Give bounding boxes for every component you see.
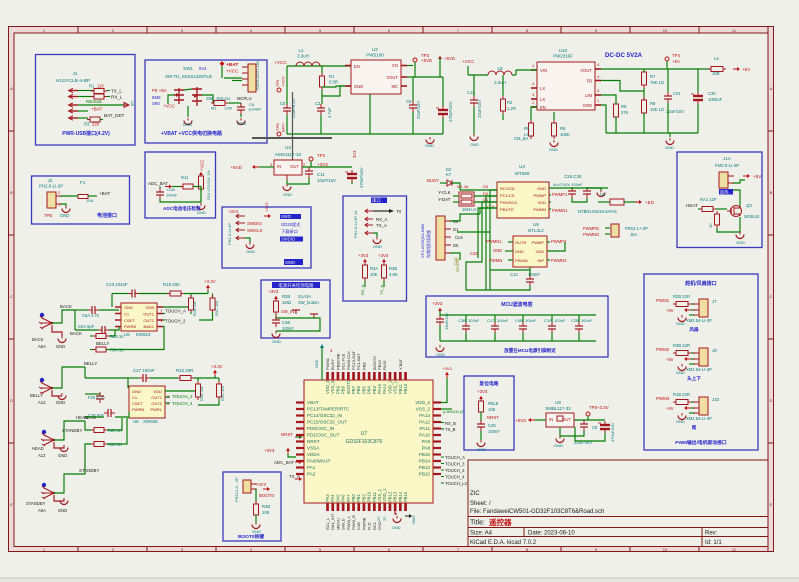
svg-text:GND: GND (537, 186, 546, 191)
wire (287, 65, 351, 67)
svg-text:PH2.0-LI-2P: PH2.0-LI-2P (39, 184, 63, 189)
connector header SW (248, 64, 256, 92)
svg-text:TP9: TP9 (275, 79, 280, 87)
capacitor C6 22uF (283, 104, 291, 115)
svg-text:C3: C3 (315, 101, 321, 106)
svg-text:Y-BAT: Y-BAT (398, 358, 403, 370)
svg-text:B: B (10, 190, 13, 195)
svg-text:存储花形烧录座: 存储花形烧录座 (425, 230, 431, 258)
net label TOUCH_3 (441, 463, 444, 465)
svg-text:VDD_2: VDD_2 (415, 400, 430, 405)
svg-text:XM2.54-LI-3P: XM2.54-LI-3P (686, 367, 712, 372)
svg-text:BAT+: BAT+ (281, 122, 286, 132)
svg-text:GND: GND (436, 352, 445, 357)
wire (172, 186, 182, 188)
svg-text:D5: D5 (483, 184, 489, 189)
touch pad HEAD (42, 430, 46, 434)
svg-text:SWCLK: SWCLK (247, 228, 263, 233)
svg-text:TOUCH_A: TOUCH_A (445, 455, 465, 460)
pin stub (383, 372, 386, 380)
svg-text:4.8K: 4.8K (389, 272, 398, 277)
resistor R2 (501, 96, 506, 114)
svg-text:PWR-USB接口(4.2V): PWR-USB接口(4.2V) (62, 130, 110, 137)
net marker (320, 344, 324, 348)
polarized cap 470uF (598, 421, 610, 433)
pin stub (399, 372, 402, 380)
svg-text:5M8: 5M8 (152, 95, 161, 100)
svg-text:PB10: PB10 (403, 383, 408, 394)
wire (85, 393, 100, 395)
svg-text:PWRB: PWRB (132, 407, 144, 412)
svg-text:Size: A4: Size: A4 (470, 531, 493, 537)
svg-text:File: FandaweiCW501-GD32F103C8: File: FandaweiCW501-GD32F103C8T6&Road.sc… (470, 509, 604, 515)
svg-text:F25 4.7n: F25 4.7n (88, 395, 105, 400)
svg-text:TPB: TPB (275, 123, 280, 131)
resistor R26 1K (91, 442, 107, 447)
svg-text:C26 C29: C26 C29 (564, 174, 582, 179)
svg-text:R2B: R2B (282, 294, 290, 299)
svg-text:4u47/10V 100nF: 4u47/10V 100nF (553, 182, 583, 187)
wire (78, 90, 93, 92)
svg-text:A: A (10, 86, 13, 91)
svg-text:+BAT: +BAT (99, 191, 110, 196)
svg-text:风扇: 风扇 (689, 326, 699, 333)
svg-text:U8: U8 (555, 400, 561, 405)
ground (666, 138, 674, 145)
svg-text:TOUCH_3: TOUCH_3 (445, 462, 465, 467)
svg-text:TOUCH_A: TOUCH_A (165, 309, 186, 314)
svg-text:TP4: TP4 (672, 53, 681, 58)
net +BAT (220, 61, 225, 66)
svg-text:C: C (10, 294, 13, 299)
svg-text:C27 100nF: C27 100nF (133, 368, 155, 373)
svg-text:22: 22 (376, 516, 381, 521)
svg-text:GND: GND (515, 249, 524, 254)
capacitor C16 10uF (436, 315, 444, 326)
svg-text:GND: GND (315, 359, 319, 368)
svg-text:22uF/10V: 22uF/10V (666, 109, 684, 114)
wire (85, 421, 91, 430)
svg-text:J8: J8 (712, 348, 717, 353)
svg-text:NRST: NRST (307, 439, 320, 444)
svg-text:+VBAT +VCC供电切换电路: +VBAT +VCC供电切换电路 (161, 130, 223, 137)
wire loop (276, 315, 320, 331)
svg-text:1: 1 (58, 203, 60, 207)
resistor R40 10K (254, 501, 259, 518)
svg-text:OUTR: OUTR (515, 240, 526, 245)
svg-text:PA0/WKUP: PA0/WKUP (307, 459, 330, 464)
svg-text:RC1/SD: RC1/SD (500, 186, 515, 191)
svg-text:1u04nF: 1u04nF (248, 107, 262, 112)
speaker connector J5A (611, 224, 619, 237)
net +5V arrow (743, 174, 750, 178)
svg-text:Rev:: Rev: (705, 531, 718, 537)
svg-text:+VCC: +VCC (462, 59, 475, 64)
svg-text:GND: GND (132, 389, 141, 394)
svg-text:R22 20R: R22 20R (176, 368, 193, 373)
svg-text:MCU滤波电容: MCU滤波电容 (501, 301, 532, 308)
svg-text:10K: 10K (488, 407, 496, 412)
wire to U4 pins (453, 195, 459, 197)
svg-text:A13: A13 (38, 400, 46, 405)
svg-text:OUT: OUT (290, 164, 299, 169)
svg-text:PWM2: PWM2 (656, 347, 670, 352)
svg-text:KW823: KW823 (136, 332, 151, 337)
svg-text:GND: GND (736, 240, 745, 245)
net label TOUCH_A (441, 456, 444, 458)
wire (698, 208, 700, 210)
svg-text:100nF: 100nF (581, 318, 593, 323)
svg-text:R4B: R4B (262, 504, 270, 509)
svg-text:VDB: VDB (146, 305, 155, 310)
svg-text:GND: GND (237, 121, 246, 126)
svg-text:PD0/OSC_IN: PD0/OSC_IN (307, 426, 334, 431)
resistor RV4 (217, 381, 222, 400)
net label TOUCH_4 (441, 476, 444, 478)
svg-text:PWMP1: PWMP1 (552, 192, 568, 197)
svg-text:Y-DAT: Y-DAT (438, 197, 451, 202)
svg-text:ADC电池电压检测: ADC电池电压检测 (163, 205, 201, 212)
svg-text:10K: 10K (262, 510, 270, 515)
svg-text:CN: CN (392, 63, 398, 68)
svg-text:10: 10 (663, 28, 668, 33)
svg-text:2: 2 (58, 191, 60, 195)
ground (245, 238, 250, 242)
pin stub (326, 372, 329, 380)
label (719, 189, 733, 195)
resistor R8 100K (552, 120, 557, 139)
connector pins (236, 215, 245, 217)
svg-text:TOUCH_2: TOUCH_2 (165, 319, 186, 324)
wire to header (224, 77, 242, 79)
svg-text:PWM1: PWM1 (656, 298, 670, 303)
ground below mcu (393, 516, 401, 523)
svg-text:C2B: C2B (282, 320, 290, 325)
svg-text:+ED: +ED (645, 200, 655, 205)
svg-text:3V3: 3V3 (352, 150, 357, 158)
capacitor C7 470uF polarized (436, 106, 448, 118)
net +BAT (78, 110, 88, 112)
ground (470, 134, 478, 141)
svg-text:CSET: CSET (132, 401, 143, 406)
svg-text:470uF/16V: 470uF/16V (610, 422, 615, 442)
svg-text:LX: LX (540, 86, 545, 91)
svg-text:PWMN: PWMN (489, 258, 502, 263)
svg-text:SW1: SW1 (183, 66, 193, 71)
svg-text:C3B: C3B (458, 318, 466, 323)
pin stub (404, 503, 407, 511)
ground (283, 184, 291, 191)
block title (371, 198, 387, 204)
svg-text:VDD: VDD (536, 249, 545, 254)
wire input (516, 69, 537, 71)
svg-text:遥控器: 遥控器 (489, 517, 512, 527)
svg-text:VIN: VIN (540, 68, 547, 73)
connector pins (365, 210, 373, 212)
svg-text:K7: K7 (446, 172, 452, 177)
pin stub (326, 503, 329, 511)
svg-text:SWDIO: SWDIO (281, 237, 296, 242)
svg-text:GND: GND (58, 508, 67, 513)
svg-text:J2: J2 (48, 178, 53, 183)
labels SWD description (280, 214, 301, 219)
svg-text:D: D (770, 398, 773, 403)
svg-text:TOUCH_4: TOUCH_4 (445, 475, 465, 480)
svg-text:GND: GND (354, 84, 363, 89)
svg-text:SWDIO: SWDIO (247, 221, 262, 226)
resistor RV3 (196, 381, 201, 400)
resistor R36 10K (382, 262, 387, 281)
svg-text:TX_L: TX_L (111, 89, 122, 94)
svg-text:PWMPD: PWMPD (583, 226, 599, 231)
touch IC U5 KW823 (121, 303, 157, 331)
resistor R34 10K (363, 262, 368, 281)
svg-text:MC: MC (391, 84, 398, 89)
block frame: power key detect (261, 280, 330, 338)
capacitor C2B 100nF (272, 316, 280, 327)
svg-text:VSS_2: VSS_2 (416, 407, 431, 412)
svg-text:PB15: PB15 (419, 452, 431, 457)
svg-text:S1A3A: S1A3A (298, 294, 311, 299)
svg-text:Sheet: /: Sheet: / (470, 501, 491, 507)
capacitor C3 4.7uF (317, 104, 325, 115)
svg-text:GND: GND (493, 248, 502, 253)
svg-text:J1A: J1A (723, 156, 732, 161)
svg-text:RX_L: RX_L (111, 95, 123, 100)
svg-text:12M: 12M (224, 106, 232, 111)
svg-text:103nF: 103nF (554, 318, 566, 323)
svg-text:电池接口: 电池接口 (97, 212, 117, 219)
pin stub (383, 503, 386, 511)
svg-text:PA9: PA9 (422, 439, 431, 444)
svg-text:TX_B: TX_B (445, 427, 456, 432)
svg-text:PWM输出/电机驱动接口: PWM输出/电机驱动接口 (675, 439, 727, 446)
svg-text:104nF: 104nF (525, 318, 537, 323)
svg-text:L8: L8 (498, 66, 503, 71)
svg-text:C42: C42 (470, 251, 478, 256)
svg-text:BELLY: BELLY (84, 361, 97, 366)
svg-text:PWMN: PWMN (515, 258, 528, 263)
ground (480, 431, 482, 440)
svg-text:GND: GND (377, 521, 382, 530)
svg-text:复位电路: 复位电路 (478, 380, 498, 387)
wire output (407, 76, 443, 78)
labels TX_L RX_L (107, 90, 110, 92)
svg-text:PWMN2: PWMN2 (551, 258, 567, 263)
svg-text:100K: 100K (560, 132, 570, 137)
svg-text:Y-CLK: Y-CLK (438, 190, 451, 195)
wire out (574, 419, 605, 421)
wire arrow out (373, 210, 389, 212)
svg-text:100nF: 100nF (488, 429, 500, 434)
svg-text:ADC_BAT: ADC_BAT (274, 460, 294, 465)
resistor R2B (274, 298, 279, 315)
ground arrow (597, 190, 605, 197)
svg-text:R2B 1M: R2B 1M (199, 387, 204, 401)
svg-text:A5A: A5A (38, 508, 46, 513)
svg-text:INP: INP (537, 258, 544, 263)
svg-text:E: E (10, 502, 13, 507)
pin stub (404, 372, 407, 380)
wire long net (457, 213, 490, 232)
svg-text:L5: L5 (714, 56, 719, 61)
svg-text:SSSS12D07-L8V: SSSS12D07-L8V (256, 60, 260, 90)
pin stub (357, 503, 360, 511)
svg-text:VOUT: VOUT (580, 68, 592, 73)
svg-text:R5U51B: R5U51B (86, 99, 102, 104)
svg-text:+VCC: +VCC (281, 76, 286, 87)
svg-text:Q3: Q3 (746, 203, 752, 208)
block frame: MCU bypass caps (426, 296, 608, 357)
resistor R1 0.5R (320, 73, 325, 90)
svg-text:+BAT: +BAT (411, 515, 416, 525)
svg-text:SMBL117-33: SMBL117-33 (545, 406, 571, 411)
svg-text:+5V: +5V (666, 406, 674, 411)
svg-text:CSET: CSET (124, 318, 135, 323)
svg-text:SW_button: SW_button (298, 300, 319, 305)
svg-text:+3V3: +3V3 (378, 253, 389, 258)
svg-text:1MΩ: 1MΩ (282, 300, 291, 305)
wire bottom (160, 189, 201, 202)
svg-text:+VCC: +VCC (226, 69, 239, 74)
resistor RV2 (210, 295, 215, 313)
svg-text:C9: C9 (592, 425, 598, 430)
svg-text:D: D (10, 398, 13, 403)
svg-text:OUT2: OUT2 (143, 318, 154, 323)
svg-text:BELLY: BELLY (96, 341, 109, 346)
svg-text:+3V3: +3V3 (477, 389, 488, 394)
block frame: reset circuit (464, 376, 514, 450)
svg-text:R8: R8 (560, 126, 566, 131)
resistor R34 1K (93, 347, 109, 352)
pin stub (399, 503, 402, 511)
ground (426, 137, 434, 144)
svg-text:RA1 12F: RA1 12F (700, 197, 717, 202)
svg-text:R9: R9 (650, 101, 656, 106)
svg-text:U5: U5 (124, 332, 130, 337)
pin stub (331, 372, 334, 380)
svg-text:电源开关检测电路: 电源开关检测电路 (278, 282, 314, 289)
ground (255, 515, 257, 522)
svg-text:D5: D5 (453, 243, 459, 248)
svg-text:10K: 10K (370, 272, 378, 277)
pin stub (357, 372, 360, 380)
svg-text:1.2R: 1.2R (507, 106, 516, 111)
block frame: PWM motor outputs (644, 274, 758, 450)
wire (90, 335, 93, 337)
svg-text:GND: GND (676, 419, 685, 424)
svg-text:22K: 22K (92, 122, 100, 127)
svg-text:BOOT0: BOOT0 (259, 493, 274, 498)
ground (550, 140, 558, 147)
svg-text:NRST: NRST (487, 415, 499, 420)
svg-text:GND: GND (252, 529, 261, 534)
svg-text:PA11: PA11 (419, 426, 430, 431)
svg-text:GND: GND (425, 143, 434, 148)
ground 2 (240, 114, 242, 117)
svg-text:R1B 1M: R1B 1M (192, 302, 197, 316)
svg-text:P0S2-1+-2P: P0S2-1+-2P (625, 226, 648, 231)
svg-text:VOUT: VOUT (386, 75, 398, 80)
pin stub (363, 372, 366, 380)
mcu right external nets (445, 372, 449, 378)
svg-text:R11: R11 (181, 175, 189, 180)
svg-text:0.5R: 0.5R (329, 80, 338, 85)
capacitor C12 (470, 96, 478, 107)
svg-text:C17: C17 (487, 318, 495, 323)
svg-text:PA10: PA10 (419, 433, 430, 438)
test point TP2 (309, 157, 313, 161)
svg-text:C23 104nF: C23 104nF (106, 282, 128, 287)
svg-text:RX_A: RX_A (376, 217, 388, 222)
svg-text:A12: A12 (38, 453, 46, 458)
svg-text:3.3uH: 3.3uH (494, 80, 506, 85)
wire (467, 66, 469, 75)
svg-text:TX_A: TX_A (376, 223, 387, 228)
test point TP4 +5V (665, 57, 669, 61)
net arrow right of mcu bottom (405, 514, 412, 518)
svg-text:+3V3: +3V3 (442, 366, 452, 371)
svg-text:TPB: TPB (44, 213, 52, 218)
svg-text:C1B: C1B (167, 187, 175, 192)
svg-text:BOOT0按键: BOOT0按键 (238, 533, 264, 540)
resistor R3 22K (87, 117, 103, 122)
wire amp nets (547, 242, 565, 251)
svg-text:R1C 1M: R1C 1M (214, 301, 219, 316)
svg-text:PH0/SCK: PH0/SCK (500, 200, 517, 205)
svg-text:OUT: OUT (562, 417, 571, 422)
svg-text:PWRB: PWRB (124, 324, 136, 329)
svg-text:22uF/10V: 22uF/10V (416, 101, 421, 119)
wire flash to U4 (450, 214, 480, 221)
svg-text:GND: GND (554, 443, 563, 448)
svg-text:C1: C1 (132, 395, 138, 400)
pin stub (352, 503, 355, 511)
svg-text:C1P: C1P (544, 318, 552, 323)
svg-text:TX_A: TX_A (289, 474, 300, 479)
svg-text:GND: GND (470, 142, 479, 147)
svg-text:BACK: BACK (60, 304, 72, 309)
svg-text:PWMP: PWMP (532, 240, 545, 245)
svg-text:DC-DC 5V2A: DC-DC 5V2A (605, 52, 643, 59)
wire (549, 187, 608, 189)
svg-text:HEAD: HEAD (32, 446, 44, 451)
svg-text:U6: U6 (133, 419, 139, 424)
resistor pulldown (715, 211, 720, 228)
resistor R33 1K (93, 334, 109, 339)
svg-text:GND: GND (283, 192, 292, 197)
wire rails (128, 377, 139, 379)
svg-text:R3A: R3A (370, 266, 378, 271)
svg-text:J1: J1 (73, 71, 78, 76)
svg-text:470uF/16V: 470uF/16V (359, 167, 364, 188)
mosfet Q3 (727, 206, 742, 217)
block frame: power/USB connector (36, 55, 136, 146)
svg-text:ADC_BAT: ADC_BAT (148, 181, 168, 186)
block frame: heater driver (677, 152, 762, 248)
svg-text:22uF/10V: 22uF/10V (477, 100, 482, 118)
svg-text:+5V: +5V (666, 357, 674, 362)
svg-text:+BAT: +BAT (91, 107, 102, 112)
svg-text:C6: C6 (280, 101, 286, 106)
svg-text:10uF/16V: 10uF/16V (317, 178, 336, 183)
capacitor C5 22uF/10V (409, 101, 417, 112)
svg-text:NRST: NRST (281, 432, 293, 437)
pin stub (342, 372, 345, 380)
svg-text:Title:: Title: (470, 520, 485, 527)
ground (187, 106, 189, 117)
svg-text:FB: FB (587, 79, 593, 84)
